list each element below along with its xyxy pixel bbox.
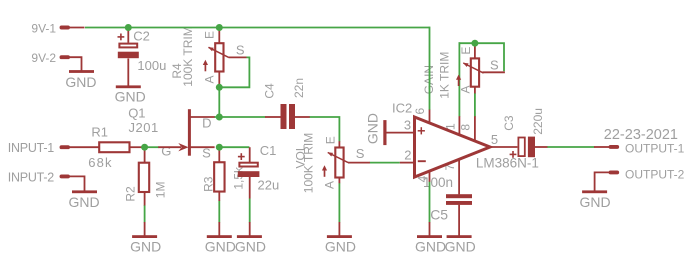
- svg-text:INPUT-1: INPUT-1: [8, 141, 54, 155]
- svg-text:S: S: [490, 58, 499, 73]
- svg-text:R2: R2: [124, 186, 138, 202]
- svg-text:GND: GND: [325, 239, 356, 255]
- svg-text:68k: 68k: [88, 155, 113, 170]
- svg-text:100K TRIM: 100K TRIM: [301, 133, 315, 193]
- svg-text:C2: C2: [133, 28, 150, 43]
- svg-text:22u: 22u: [258, 177, 280, 192]
- svg-text:OUTPUT-1: OUTPUT-1: [625, 142, 685, 156]
- svg-text:1,5k: 1,5k: [231, 166, 245, 190]
- svg-text:GND: GND: [445, 239, 476, 255]
- svg-text:Q1: Q1: [128, 105, 145, 120]
- svg-text:LM386N-1: LM386N-1: [476, 156, 539, 171]
- svg-text:C4: C4: [263, 83, 277, 99]
- svg-text:A: A: [323, 181, 337, 189]
- svg-text:GND: GND: [205, 239, 236, 255]
- svg-text:R1: R1: [91, 124, 108, 139]
- svg-text:6: 6: [413, 107, 427, 114]
- svg-text:C1: C1: [260, 143, 277, 158]
- svg-text:GND: GND: [69, 194, 100, 210]
- svg-text:GND: GND: [115, 88, 146, 104]
- svg-text:OUTPUT-2: OUTPUT-2: [625, 167, 685, 181]
- svg-text:100K TRIM: 100K TRIM: [181, 26, 195, 86]
- svg-text:GND: GND: [65, 74, 96, 90]
- svg-text:J201: J201: [129, 120, 159, 135]
- svg-text:22n: 22n: [292, 78, 306, 98]
- svg-text:9V-2: 9V-2: [31, 51, 56, 65]
- svg-text:INPUT-2: INPUT-2: [8, 170, 54, 184]
- svg-text:C3: C3: [502, 115, 516, 131]
- svg-text:A: A: [203, 75, 217, 83]
- svg-text:GND: GND: [580, 194, 611, 210]
- svg-text:E: E: [459, 47, 473, 55]
- svg-text:IC2: IC2: [392, 100, 412, 115]
- svg-text:GND: GND: [415, 239, 446, 255]
- svg-text:9V-1: 9V-1: [31, 21, 56, 35]
- svg-text:1M: 1M: [153, 182, 167, 199]
- svg-text:E: E: [324, 136, 338, 144]
- svg-text:S: S: [236, 42, 245, 57]
- svg-text:100u: 100u: [137, 58, 166, 73]
- svg-text:3: 3: [404, 117, 411, 132]
- svg-text:GND: GND: [235, 239, 266, 255]
- svg-text:8: 8: [459, 124, 473, 131]
- svg-text:C5: C5: [430, 206, 448, 222]
- svg-text:G: G: [161, 144, 171, 159]
- svg-text:S: S: [356, 146, 365, 161]
- svg-text:1K TRIM: 1K TRIM: [438, 52, 452, 99]
- svg-text:2: 2: [404, 147, 411, 162]
- svg-text:220u: 220u: [531, 108, 545, 135]
- svg-text:E: E: [203, 31, 217, 39]
- svg-text:5: 5: [491, 132, 498, 147]
- svg-text:GND: GND: [364, 113, 380, 144]
- svg-text:GND: GND: [130, 239, 161, 255]
